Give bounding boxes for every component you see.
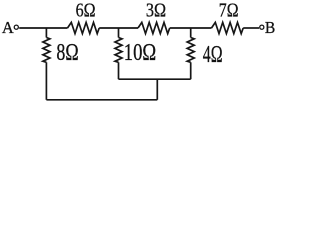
resistor 6Ω zigzag: [68, 22, 100, 33]
wire 3Ω to 7Ω: [170, 27, 212, 29]
wire A to 6Ω: [19, 27, 67, 29]
svg-text:8Ω: 8Ω: [56, 39, 78, 66]
wire bottom rail: [46, 99, 157, 101]
svg-text:10Ω: 10Ω: [124, 39, 156, 66]
wire 4Ω bottom to mid wire: [190, 62, 192, 79]
svg-text:3Ω: 3Ω: [146, 0, 166, 22]
terminal B circle: [260, 25, 264, 29]
wire 6Ω to 3Ω: [99, 27, 138, 29]
wire mid rail 10Ω to 4Ω: [119, 78, 191, 80]
svg-text:6Ω: 6Ω: [76, 0, 96, 22]
wire 8Ω bottom to bottom rail: [45, 62, 47, 100]
svg-text:A: A: [2, 18, 14, 37]
terminal A circle: [14, 25, 18, 29]
svg-text:7Ω: 7Ω: [219, 0, 239, 22]
svg-text:B: B: [265, 18, 275, 37]
resistor 3Ω zigzag: [138, 22, 170, 33]
resistor 10Ω zigzag: [115, 38, 122, 63]
wire 10Ω bottom to mid wire: [118, 62, 120, 79]
wire stub top of 8Ω: [45, 28, 47, 38]
wire stub top of 4Ω: [190, 28, 192, 38]
svg-text:4Ω: 4Ω: [203, 41, 223, 68]
wire stub top of 10Ω: [118, 28, 120, 38]
resistor 8Ω zigzag: [43, 38, 50, 63]
resistor 4Ω zigzag: [187, 38, 194, 63]
wire drop mid rail to bottom rail: [156, 79, 158, 100]
resistor 7Ω zigzag: [212, 22, 244, 33]
wire 7Ω to B: [243, 27, 259, 29]
